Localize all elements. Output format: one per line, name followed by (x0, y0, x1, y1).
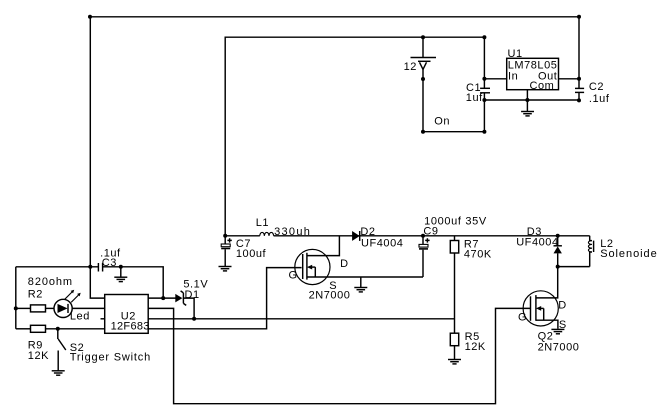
svg-text:U1: U1 (508, 48, 523, 60)
node C3 ground tap (119, 265, 123, 269)
svg-text:470K: 470K (464, 248, 492, 260)
wire VDD to U2 (90, 267, 104, 298)
node D3 bottom (556, 265, 560, 269)
wire VDD left drop (89, 17, 91, 267)
node S2 junction (56, 327, 60, 331)
diode D2 UF4004 (352, 231, 360, 241)
wire C3 line right (103, 267, 164, 298)
wire U2 pin3 long line (148, 318, 454, 320)
wire to R9 (16, 328, 31, 330)
pin stub U2 left pin3 (101, 318, 105, 320)
svg-text:12: 12 (404, 61, 417, 73)
node C9 top (421, 234, 425, 238)
capacitor C7 (221, 236, 232, 267)
wire rail to L2 (558, 235, 590, 237)
node top-left junction (88, 15, 92, 19)
svg-text:12K: 12K (465, 341, 486, 353)
node bottom rail left (421, 130, 425, 134)
wire C3 line left (16, 266, 99, 268)
svg-text:12F683: 12F683 (111, 321, 150, 333)
node battery switch tap (421, 77, 425, 81)
svg-text:In: In (508, 71, 518, 83)
wire In line (483, 37, 485, 79)
svg-text:S: S (559, 319, 567, 331)
capacitor C2 (575, 88, 584, 100)
LED arrow 1 (65, 290, 75, 300)
wire top +5V rail (90, 16, 579, 18)
svg-text:100uf: 100uf (236, 248, 267, 260)
transistor Q2 2N7000 (523, 291, 558, 329)
capacitor C9 (419, 236, 430, 277)
wire LED to U2 (72, 307, 105, 309)
battery 12V (411, 37, 437, 132)
svg-text:Solenoide: Solenoide (600, 248, 657, 260)
node In junction (482, 77, 486, 81)
wire Out line (559, 78, 580, 80)
svg-text:On: On (434, 116, 450, 128)
capacitor C1 (480, 79, 490, 100)
ground below S2 (52, 371, 65, 375)
wire main rail mid (274, 235, 558, 237)
node Out junction (577, 77, 581, 81)
ground below C7 (219, 267, 232, 271)
wire R2 to LED (46, 307, 55, 309)
resistor R7 (450, 236, 458, 333)
node In corner (482, 35, 486, 39)
svg-text:820ohm: 820ohm (28, 276, 73, 288)
node Com junction (525, 98, 529, 102)
svg-text:S: S (329, 280, 337, 292)
svg-text:C9: C9 (423, 226, 438, 238)
wire D1 cathode down (183, 298, 194, 319)
LED arrow 2 (71, 293, 81, 303)
wire U2 pin4 to Q1 gate (148, 268, 301, 329)
ground at Q2 source (551, 329, 564, 333)
inductor L1 (260, 232, 274, 235)
svg-text:Led: Led (70, 311, 90, 323)
LED triangle (58, 304, 68, 313)
wire U2 pin2 loop to Q2 gate (148, 308, 530, 403)
wire R9 to U2 (46, 328, 105, 330)
svg-text:Com: Com (530, 80, 555, 92)
svg-text:330uh: 330uh (274, 226, 311, 238)
IC U2 12F683 box (105, 295, 149, 334)
ground below C3 (114, 267, 127, 282)
LED cathode bar (67, 304, 69, 313)
node C3 line 4-way junction (88, 265, 92, 269)
svg-text:R2: R2 (28, 289, 43, 301)
svg-text:G: G (518, 311, 527, 323)
inductor L2 solenoid (588, 236, 593, 267)
svg-text:UF4004: UF4004 (361, 237, 403, 249)
wire L2 bottom (558, 266, 590, 268)
svg-text:D: D (340, 258, 349, 270)
node D3 top (556, 234, 560, 238)
capacitor C3 (98, 263, 102, 272)
ground below U1 (521, 100, 534, 116)
svg-text:L1: L1 (256, 217, 269, 229)
svg-text:1uf: 1uf (466, 92, 483, 104)
wire ground line under U1 (484, 99, 579, 101)
svg-text:C3: C3 (102, 257, 117, 269)
wire left rail (15, 267, 17, 329)
svg-text:12K: 12K (28, 350, 49, 362)
node bottom rail right (482, 130, 486, 134)
node battery top (421, 35, 425, 39)
wire 12V rail (225, 37, 484, 236)
svg-text:D1: D1 (185, 289, 200, 301)
svg-text:.1uf: .1uf (589, 93, 610, 105)
svg-text:2N7000: 2N7000 (538, 342, 580, 354)
ground below R5 (448, 360, 461, 364)
wire right drop to Out (578, 17, 580, 89)
wire U2 pin1 to D1 (148, 297, 175, 299)
LED circle (54, 299, 72, 317)
svg-text:C2: C2 (589, 81, 604, 93)
node C7 junction (223, 234, 227, 238)
svg-text:LM78L05: LM78L05 (508, 59, 558, 71)
ground at Q1 source (354, 277, 367, 292)
svg-text:D2: D2 (360, 226, 375, 238)
svg-text:D: D (558, 300, 567, 312)
resistor R5 (450, 333, 458, 359)
wire Q2 drain riser (536, 267, 558, 298)
svg-text:UF4004: UF4004 (516, 237, 558, 249)
svg-text:Trigger Switch: Trigger Switch (70, 352, 151, 364)
wire to R2 (16, 307, 31, 309)
wire main rail left (225, 235, 260, 237)
node top-right junction (577, 15, 581, 19)
node D1 to pin3 line (192, 317, 196, 321)
switch S2 (58, 329, 66, 371)
wire battery bottom rail (423, 100, 484, 132)
resistor R2 (31, 305, 46, 312)
diode D1 zener 5.1V (175, 291, 186, 306)
node C2 bottom (577, 98, 581, 102)
node R2 tap (14, 306, 18, 310)
node C1 bottom (482, 98, 486, 102)
diode D3 UF4004 flyback (554, 236, 562, 267)
node D1 anode junction (161, 296, 165, 300)
resistor R9 (31, 325, 46, 332)
svg-text:Q2: Q2 (538, 330, 554, 342)
op-amp U1 LM78L05 box (507, 58, 559, 89)
wire Com stub (526, 90, 528, 100)
svg-text:G: G (289, 270, 298, 282)
transistor Q1 2N7000 (295, 236, 423, 285)
